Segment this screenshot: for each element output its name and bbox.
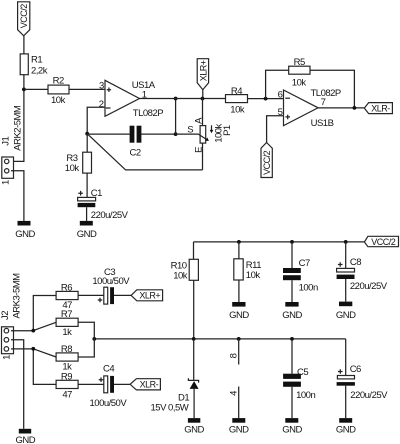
wire R3 to C1 [86, 173, 88, 197]
wire rail to D1 [193, 339, 195, 380]
op-amp US1B TL082P [278, 88, 341, 129]
wire node to C2 [87, 133, 129, 135]
wire US1A output pin 1 to R4 [140, 98, 226, 100]
wire feedback loop R5 [266, 70, 355, 108]
pin 8 stub US1 supply [229, 339, 240, 365]
svg-text:2: 2 [99, 99, 104, 110]
svg-text:10k: 10k [51, 95, 66, 106]
inverting - mark [106, 107, 111, 109]
wire rail corner to C6 [345, 339, 347, 376]
svg-text:C4: C4 [103, 363, 114, 374]
net flag XLR+ (lower) [131, 290, 163, 301]
capacitor C8 220u/25V [337, 257, 388, 292]
junction node A [22, 88, 26, 92]
wire node to R3 [86, 134, 88, 153]
rail phantom (lower second) [94, 338, 345, 340]
svg-text:10k: 10k [173, 270, 188, 281]
svg-text:ARK3-5MM: ARK3-5MM [11, 273, 22, 319]
net flag XLR- (top right) [364, 103, 392, 114]
resistor R4 10k [226, 86, 248, 115]
svg-text:US1B: US1B [311, 118, 334, 129]
svg-text:100n: 100n [296, 390, 315, 401]
net flag XLR+ (top) [197, 59, 208, 99]
ground J1 [15, 221, 35, 240]
junction on output wire [174, 97, 178, 101]
ground C5 [282, 418, 302, 436]
junction pin 6 node [264, 97, 268, 101]
op-amp US1A TL082P [99, 80, 163, 119]
junction J2 pin1 [31, 329, 35, 333]
svg-text:GND: GND [229, 310, 249, 321]
svg-text:VCC/2: VCC/2 [19, 4, 29, 29]
junction J2 pin3 [31, 347, 35, 351]
wire C1 to ground [86, 207, 88, 221]
svg-text:P1: P1 [222, 125, 233, 136]
svg-text:C1: C1 [91, 188, 102, 199]
svg-text:XLR+: XLR+ [139, 291, 160, 301]
ground C6 [336, 418, 356, 436]
svg-text:C8: C8 [350, 257, 361, 268]
wire D1 to ground [193, 389, 195, 418]
resistor R3 10k [65, 152, 92, 174]
junction output B [353, 106, 357, 110]
svg-text:GND: GND [184, 425, 204, 436]
svg-text:100u/50V: 100u/50V [92, 276, 130, 287]
svg-text:R2: R2 [53, 76, 64, 87]
wire rail to C5 [291, 339, 293, 374]
ground C7 [282, 302, 302, 321]
svg-text:1: 1 [1, 355, 12, 360]
junction rail C5 [290, 337, 294, 341]
svg-text:1k: 1k [62, 327, 72, 338]
svg-text:R5: R5 [294, 57, 305, 68]
svg-text:C7: C7 [299, 258, 310, 269]
zener diode D1 15V 0,5W [151, 378, 199, 413]
wire R4 to US1B pin 6 [248, 98, 284, 100]
junction inverting node [85, 132, 89, 136]
svg-text:47: 47 [62, 390, 72, 401]
potentiometer P1 100k [176, 99, 233, 170]
ground D1 [184, 418, 204, 436]
svg-text:1: 1 [0, 180, 11, 185]
non-inverting + mark [285, 115, 290, 120]
svg-text:10k: 10k [292, 77, 307, 88]
wire inverting node diagonal to pot bottom [87, 134, 202, 170]
wire VCC/2 flag to R1 [23, 36, 25, 54]
svg-text:10k: 10k [246, 270, 261, 281]
wire R11 to ground [238, 280, 240, 302]
resistor R8 1k [56, 344, 78, 373]
wire C4 to XLR- [114, 383, 130, 385]
svg-text:TL082P: TL082P [133, 108, 163, 119]
capacitor C1 220u/25V [78, 188, 129, 221]
svg-text:GND: GND [15, 229, 35, 240]
inverting - mark [285, 97, 290, 99]
svg-text:VCC/2: VCC/2 [371, 237, 396, 247]
svg-text:R9: R9 [61, 371, 72, 382]
wire C5 to ground [291, 387, 293, 418]
wire US1A pin 2 feedback [87, 107, 105, 133]
svg-text:E: E [193, 147, 204, 153]
svg-text:10k: 10k [65, 163, 80, 174]
wire US1B pin 5 to VCC/2 [267, 116, 284, 143]
connector J2 ARK3-5MM [0, 273, 22, 360]
junction rail C7 [290, 240, 294, 244]
junction output / XLR+ [201, 97, 205, 101]
junction rail C8 [344, 240, 348, 244]
resistor R11 10k [234, 259, 261, 281]
svg-text:GND: GND [229, 425, 249, 436]
wire J1 pin 1 to ground [11, 171, 24, 221]
svg-text:VCC/2: VCC/2 [262, 150, 272, 175]
capacitor C7 100n [283, 258, 318, 293]
wire R10 to lower rail [193, 280, 195, 339]
svg-text:4: 4 [229, 391, 240, 396]
ground R11 [229, 302, 249, 321]
svg-text:R8: R8 [61, 344, 72, 355]
wire C7 to ground [291, 280, 293, 302]
resistor R2 10k [48, 76, 69, 107]
svg-text:7: 7 [321, 97, 326, 108]
svg-text:3: 3 [99, 81, 104, 92]
junction wiper node [174, 132, 178, 136]
svg-text:220u/25V: 220u/25V [350, 281, 388, 292]
supply flag VCC/2 mid [261, 143, 272, 178]
svg-text:10k: 10k [230, 104, 245, 115]
rail VCC/2 (lower) [194, 242, 365, 259]
svg-text:S: S [187, 125, 193, 136]
svg-text:R6: R6 [61, 282, 72, 293]
wire R2 to US1A pin 3 [69, 88, 105, 90]
svg-text:XLR-: XLR- [371, 103, 390, 113]
wire US1B output pin 7 to XLR- [318, 107, 364, 109]
svg-text:ARK2-5MM: ARK2-5MM [12, 105, 23, 151]
svg-text:GND: GND [282, 425, 302, 436]
capacitor C4 100u/50V [90, 363, 128, 409]
svg-text:XLR+: XLR+ [198, 60, 208, 81]
svg-text:6: 6 [278, 90, 283, 101]
junction rail pin8 [237, 337, 241, 341]
svg-text:XLR-: XLR- [140, 380, 159, 390]
junction rail R11 [237, 240, 241, 244]
capacitor C5 100n [283, 367, 315, 401]
wire C8 to ground [345, 279, 347, 302]
svg-text:J2: J2 [0, 311, 11, 320]
ground J2 [15, 429, 35, 444]
wire rail to R11 [238, 242, 240, 259]
supply flag VCC/2 right [364, 236, 398, 247]
svg-text:15V 0,5W: 15V 0,5W [151, 402, 189, 413]
svg-text:GND: GND [15, 435, 35, 444]
svg-text:100u/50V: 100u/50V [90, 398, 128, 409]
wire node A to R2 [24, 88, 48, 90]
wire R9 to C4 [78, 383, 104, 385]
wire J2 pin 3 node [11, 349, 56, 385]
svg-text:220u/25V: 220u/25V [91, 210, 129, 221]
resistor R7 1k [56, 309, 78, 338]
svg-text:100n: 100n [299, 282, 318, 293]
junction rail D1 [192, 337, 196, 341]
svg-text:GND: GND [77, 229, 97, 240]
resistor R1 2,2k [20, 54, 48, 77]
svg-text:C5: C5 [297, 367, 308, 378]
wire R7 right to rail [78, 322, 94, 357]
resistor R10 10k [171, 259, 199, 281]
wire R1 to J1 pin and node A [11, 75, 24, 162]
resistor R6 47 [56, 282, 78, 311]
capacitor C3 100u/50V [92, 267, 130, 304]
svg-text:8: 8 [229, 353, 240, 358]
wire C3 to XLR+ [114, 294, 131, 296]
ground C8 [336, 302, 356, 322]
svg-text:2,2k: 2,2k [31, 66, 48, 77]
svg-text:GND: GND [336, 425, 356, 436]
svg-text:5: 5 [278, 107, 283, 118]
svg-text:R1: R1 [31, 55, 42, 66]
supply flag VCC/2 top-left [18, 2, 30, 36]
svg-text:TL082P: TL082P [311, 88, 341, 99]
pin 4 stub US1 ground [229, 387, 240, 419]
ground C1 [77, 221, 97, 240]
wire rail to C7 [291, 242, 293, 268]
wire C6 to ground [345, 386, 347, 418]
ground pin 4 [229, 418, 249, 436]
wire J2 pin 1 node [11, 296, 56, 331]
svg-text:C2: C2 [130, 148, 141, 159]
wire wiper node up to output [175, 99, 177, 135]
svg-text:220u/25V: 220u/25V [350, 390, 388, 401]
svg-text:GND: GND [282, 310, 302, 321]
wire R6 to C3 [78, 294, 104, 296]
capacitor C6 220u/25V [337, 364, 389, 401]
connector J1 ARK2-5MM [0, 105, 23, 185]
svg-text:GND: GND [336, 310, 356, 321]
resistor R9 47 [56, 371, 78, 400]
capacitor C2 [130, 126, 142, 159]
resistor R5 10k [289, 57, 310, 88]
wire C2 to wiper node [141, 133, 175, 135]
non-inverting + mark [107, 88, 111, 92]
svg-text:R7: R7 [61, 309, 72, 320]
wire rail to C8 [345, 242, 347, 269]
net flag XLR- (lower) [130, 379, 160, 390]
wire J2 pin 2 to ground [11, 340, 24, 429]
junction rail left R7/R8 [92, 337, 96, 341]
svg-text:R4: R4 [231, 86, 242, 97]
svg-text:C6: C6 [350, 364, 361, 375]
svg-text:J1: J1 [0, 136, 11, 145]
